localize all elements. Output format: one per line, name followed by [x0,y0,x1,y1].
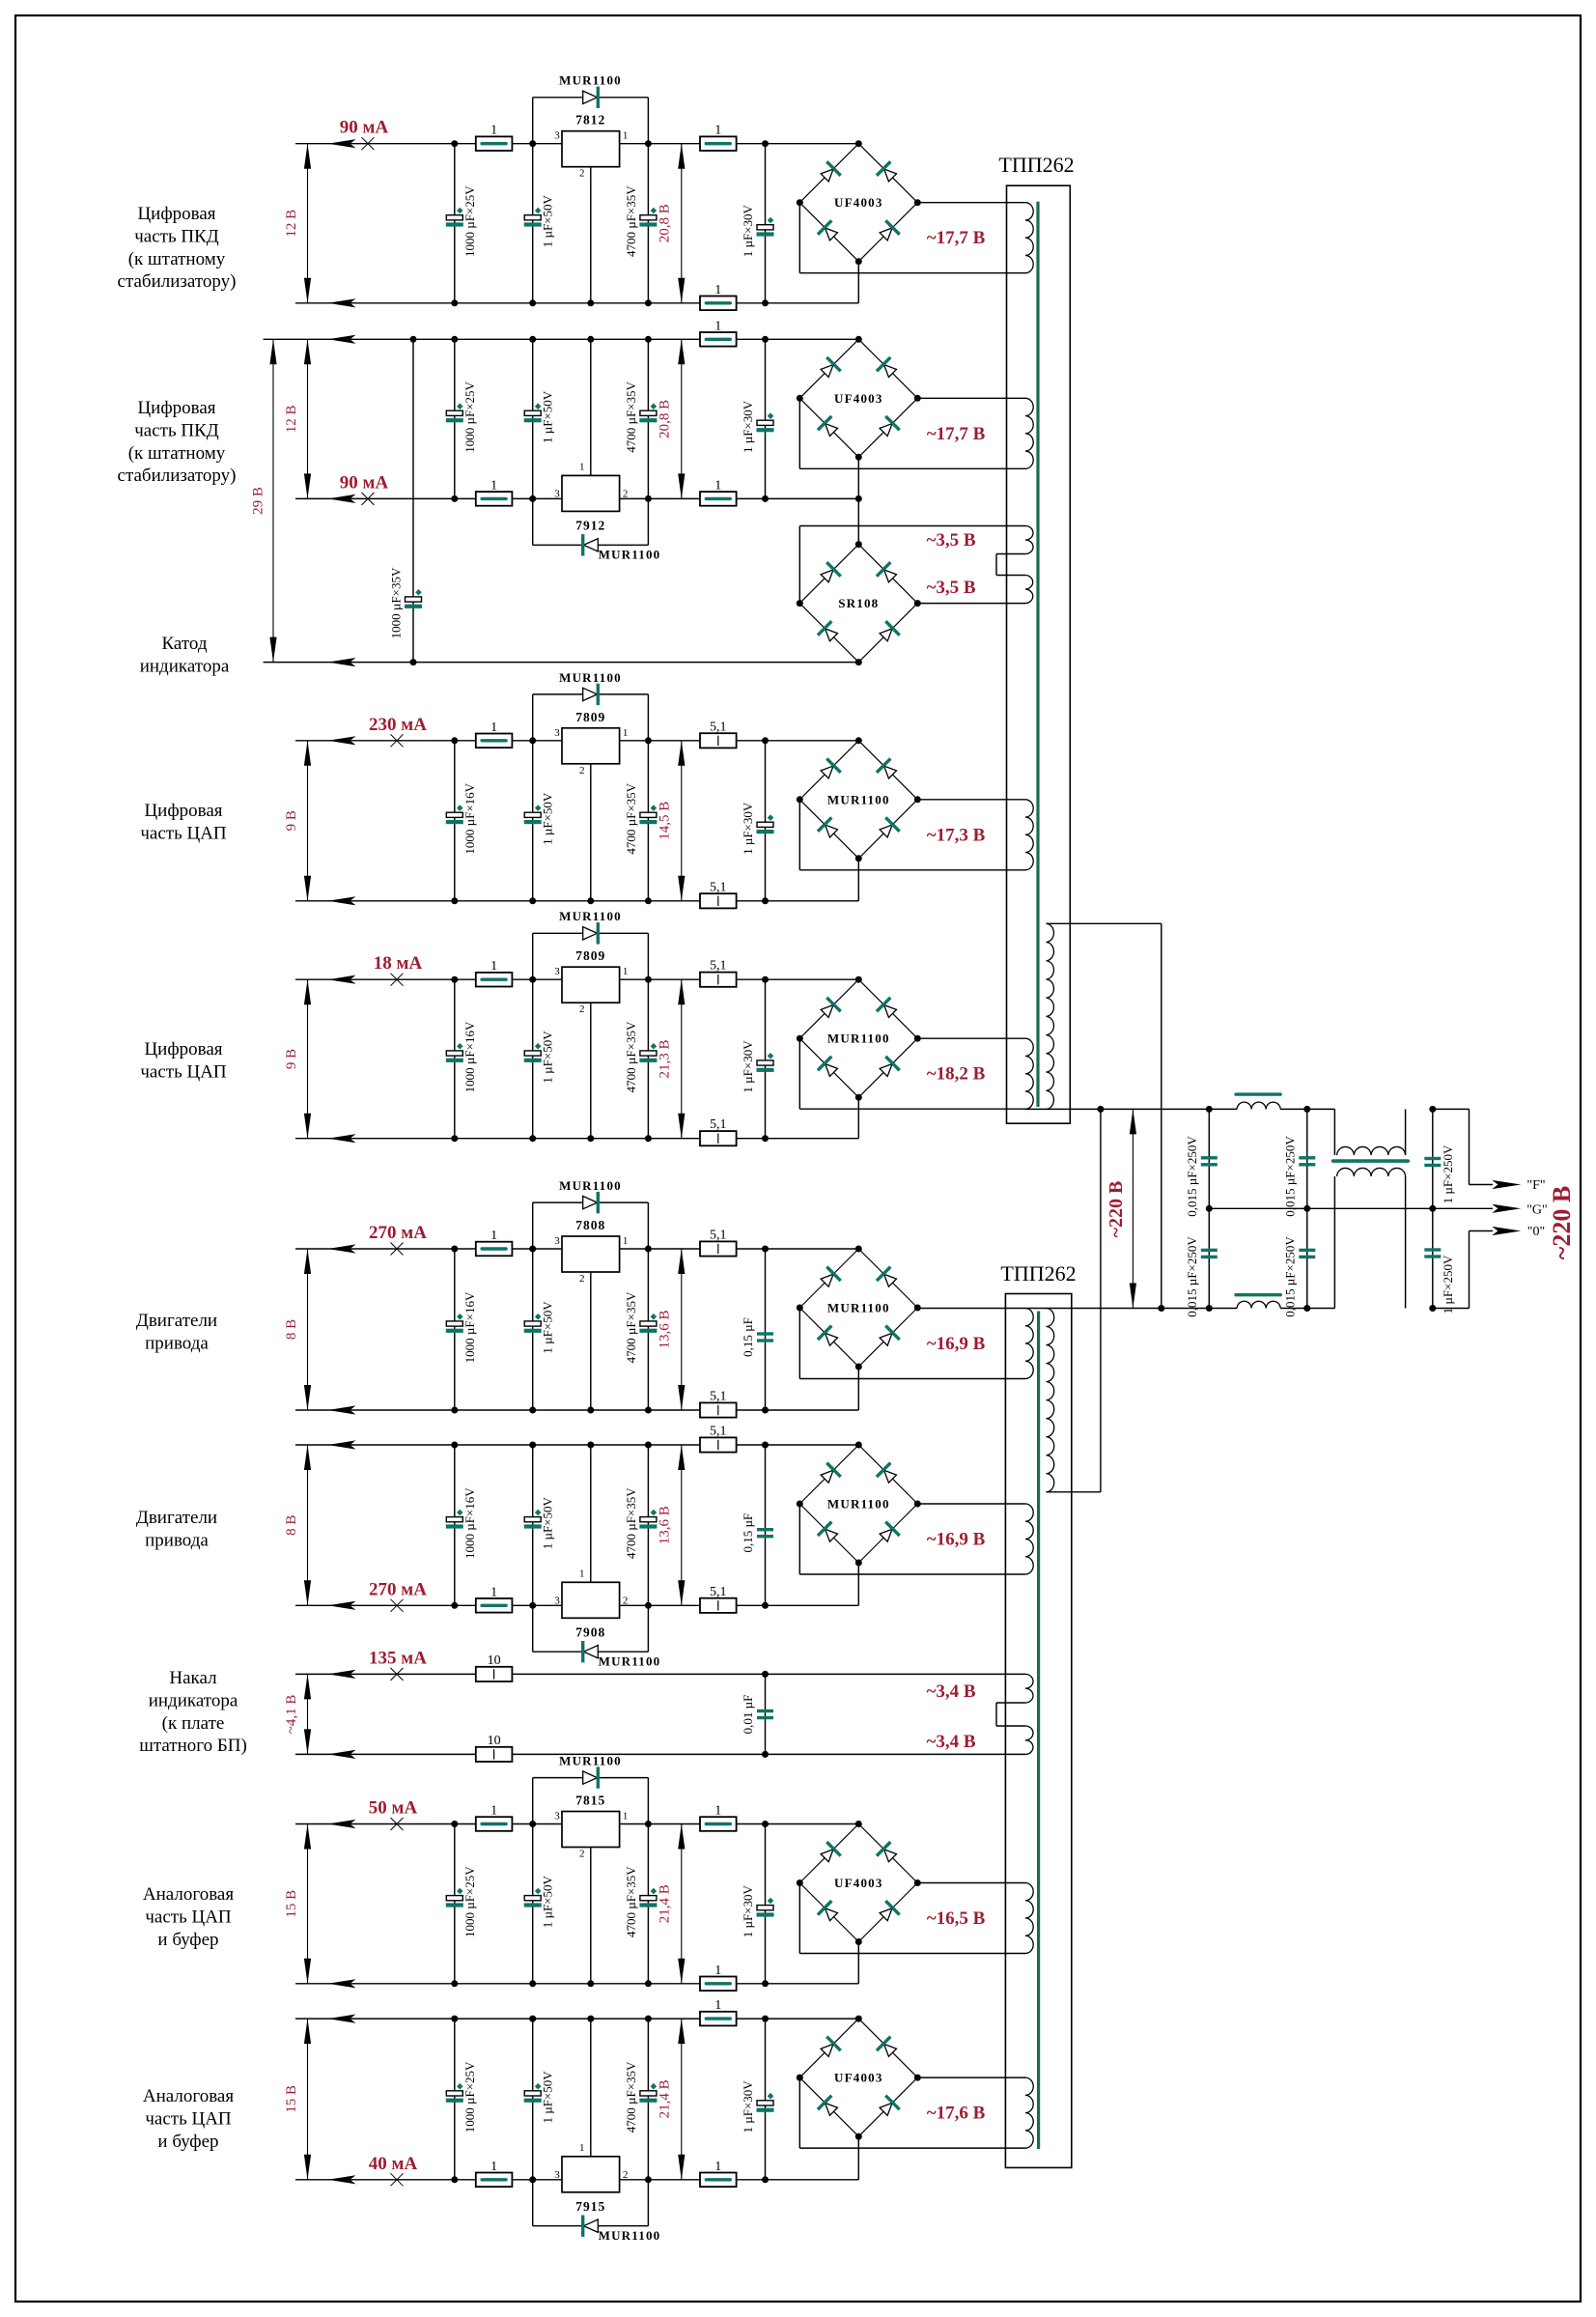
junction R5 C2 bottom [529,1407,536,1414]
resistor filament bottom 10 [476,1747,513,1762]
svg-text:"G": "G" [1526,1202,1548,1217]
diode R8 MUR1100 [583,2216,599,2237]
capacitor R1 C3 4700 µF×35V [640,215,657,220]
wire R1 C2 column [532,144,534,303]
wire R5 C4 column [765,1249,767,1410]
wire T1 primary top [1047,922,1162,924]
capacitor 1000 µF×35V [406,597,422,602]
junction R7 C1 bottom [451,1980,458,1987]
capacitor R3 C4 1 µF×30V [757,822,773,827]
wire T2 primary bottom [1047,1491,1101,1493]
wire R6 bridge return [857,1563,859,1605]
svg-text:1: 1 [490,124,497,138]
junction R4 C3 top [645,976,652,983]
wire R7 return rail [295,1983,858,1985]
junction R1 C2 bottom [529,299,536,306]
wire T1 primary connector [1161,923,1162,1308]
wire R4 bypass [532,933,534,979]
svg-text:1 µF×50V: 1 µF×50V [541,2071,555,2124]
svg-text:3: 3 [554,488,560,499]
junction R6 C4 top [762,1442,769,1449]
svg-text:2: 2 [623,488,629,499]
svg-text:230 мА: 230 мА [369,715,427,735]
svg-text:(к штатному: (к штатному [128,249,226,269]
junction chainC G [1429,1205,1436,1212]
capacitor R6 C1 1000 µF×16V [446,1517,462,1522]
svg-text:1 µF×30V: 1 µF×30V [741,802,755,855]
terminal arrow R3 bottom [328,896,356,905]
junction R7 C4 bottom [762,1980,769,1987]
svg-text:~4,1 В: ~4,1 В [284,1695,299,1735]
wire R4 bridge return [857,1097,859,1139]
junction C35 bottom [410,659,417,665]
svg-text:0,015 µF×250V: 0,015 µF×250V [1185,1136,1199,1217]
bridge R5 MUR1100 [799,1249,858,1308]
fuse R2 F1 1 [476,492,513,506]
svg-text:MUR1100: MUR1100 [559,1178,622,1193]
measure cross R3 [391,734,404,747]
wire R6 C2 column [532,1445,534,1605]
svg-text:UF4003: UF4003 [834,2071,883,2085]
capacitor chainA upper 0,015 µF×250V [1201,1156,1218,1159]
winding R4 secondary [1025,1038,1033,1109]
svg-text:3: 3 [554,727,560,739]
svg-text:1000 µF×16V: 1000 µF×16V [462,1487,477,1559]
svg-text:1000 µF×25V: 1000 µF×25V [462,2061,477,2133]
svg-text:MUR1100: MUR1100 [827,1031,890,1046]
wire R3 return rail [295,900,858,902]
svg-text:~17,6 В: ~17,6 В [927,2104,986,2124]
wire R7 bypass [532,1778,534,1824]
junction R6 C2 bottom [529,1602,536,1609]
terminal arrow R1 top [328,139,356,148]
dimension right R6 [681,1445,683,1605]
svg-text:10: 10 [488,1653,501,1668]
svg-text:7915: 7915 [575,2199,605,2214]
svg-text:1000 µF×25V: 1000 µF×25V [462,1866,477,1937]
diode R3 MUR1100 [583,684,599,705]
wire R8 bridge return [857,2136,859,2180]
svg-text:~17,7 В: ~17,7 В [927,228,986,248]
wire R8 output rail [295,2179,858,2181]
wire R1 C3 column [647,144,649,303]
junction R6 pin1 [587,1442,594,1449]
measure cross R1 [362,137,375,150]
svg-text:Аналоговая: Аналоговая [143,2086,234,2106]
terminal arrow cathode [328,658,356,666]
wire R2 to SR108 [857,498,859,544]
svg-text:2: 2 [623,1595,629,1606]
junction R8 C1 bottom [451,2176,458,2183]
terminal arrow R4 bottom [328,1134,356,1143]
bridge R8 UF4003 [799,2019,858,2077]
winding R5 secondary [1025,1309,1033,1379]
diode R7 MUR1100 [583,1766,599,1788]
junction chainA G [1206,1205,1213,1212]
junction R5 C1 bottom [451,1407,458,1414]
wire R4 C4 column [765,979,767,1138]
junction R3 C3 bottom [645,897,652,904]
measure cross R7 [391,1818,404,1830]
winding R1 secondary [1025,203,1033,273]
svg-text:2: 2 [579,1273,585,1285]
junction bottom line chainA [1206,1305,1213,1312]
transformer T2 TPP262 box [1005,1294,1071,2168]
junction R6 C1 bottom [451,1602,458,1609]
terminal arrow 0 [1492,1227,1521,1235]
svg-text:привода: привода [145,1530,209,1550]
svg-text:~3,4 В: ~3,4 В [926,1732,975,1752]
svg-text:2: 2 [579,168,585,180]
terminal arrow R2 top [328,335,356,344]
wire R5 bridge return [857,1367,859,1410]
svg-text:0,01 µF: 0,01 µF [741,1695,755,1735]
capacitor R2 C1 1000 µF×25V [446,410,462,415]
wire winding jog [996,553,1025,555]
junction R5 C3 top [645,1246,652,1253]
fuse R8 F1 1 [476,2173,513,2188]
junction R2 C4 top [762,336,769,343]
junction R2 C2 top [529,336,536,343]
svg-text:9 В: 9 В [284,810,299,831]
bridge R4 MUR1100 [799,979,858,1038]
junction R8 C2 bottom [529,2176,536,2183]
svg-text:Цифровая: Цифровая [137,398,215,418]
fuse R8 F2 top 1 [700,2012,737,2026]
wire R3 AC bottom [798,800,800,870]
measure cross filament [391,1668,404,1681]
dimension right R3 [681,741,683,901]
wire R6 output rail [295,1604,858,1606]
svg-text:1 µF×30V: 1 µF×30V [741,1884,755,1937]
regulator R2 7912 [562,475,620,511]
transformer T1 primary [1047,923,1054,1109]
svg-text:Цифровая: Цифровая [144,1039,222,1060]
fuse R7 F1 1 [476,1817,513,1831]
regulator R3 7809 [562,728,620,764]
junction R6 C3 top [645,1442,652,1449]
terminal arrow R4 top [328,975,356,984]
junction top line chainB [1303,1106,1310,1113]
capacitor R7 C3 4700 µF×35V [640,1896,657,1901]
svg-text:Двигатели: Двигатели [136,1311,217,1331]
wire R5 pin2 [590,1272,592,1410]
svg-text:270 мА: 270 мА [369,1223,427,1243]
terminal arrow R8 top [328,2015,356,2023]
bridge R1 UF4003 [799,144,858,203]
svg-text:7808: 7808 [575,1218,605,1232]
wire R7 AC bottom [798,1883,800,1954]
junction R4 C2 bottom [529,1135,536,1142]
svg-text:1 µF×50V: 1 µF×50V [541,1031,555,1084]
wire R6 common rail [295,1444,858,1446]
svg-text:3: 3 [554,130,560,142]
fuse R1 F2 bottom 1 [700,297,737,311]
svg-text:MUR1100: MUR1100 [827,1497,890,1512]
fuse R4 F2 bottom 5,1 [700,1131,737,1145]
bridge R3 MUR1100 [799,741,858,800]
dimension 29 В [272,339,274,662]
junction R4 C1 top [451,976,458,983]
winding 3,4 В upper [1025,1674,1033,1703]
svg-text:~16,9 В: ~16,9 В [927,1530,986,1550]
svg-text:Цифровая: Цифровая [144,801,222,821]
svg-text:1: 1 [623,727,629,739]
svg-text:и буфер: и буфер [157,1930,218,1950]
junction R2 C1 top [451,336,458,343]
junction R2 C3 bottom [645,495,652,502]
wire R2 C4 column [765,339,767,498]
svg-text:21,4 В: 21,4 В [658,1884,673,1923]
choke lower winding [1337,1168,1406,1176]
wire R3 output rail [295,740,858,742]
svg-text:1: 1 [714,283,721,297]
svg-text:1 µF×250V: 1 µF×250V [1441,1144,1455,1203]
inductor L2 [1237,1301,1280,1308]
wire choke right lower [1405,1176,1407,1309]
wire R2 output rail [295,497,858,499]
svg-text:7908: 7908 [575,1625,605,1639]
wire SR108 AC right [917,603,1025,605]
terminal arrow R7 bottom [328,1979,356,1988]
junction R5 C2 top [529,1246,536,1253]
wire choke right upper [1405,1109,1407,1155]
svg-text:и буфер: и буфер [157,2132,218,2152]
svg-text:MUR1100: MUR1100 [827,1301,890,1315]
wire R1 return rail [295,302,858,304]
wire R1 C4 column [765,144,767,303]
capacitor R7 C1 1000 µF×25V [446,1896,462,1901]
svg-text:часть ЦАП: часть ЦАП [140,823,227,843]
svg-text:Аналоговая: Аналоговая [143,1884,234,1905]
svg-text:0,015 µF×250V: 0,015 µF×250V [1185,1236,1199,1317]
svg-text:1: 1 [490,1804,497,1819]
wire R1 AC top [917,202,1025,204]
svg-text:7912: 7912 [575,518,605,532]
wire R6 C4 column [765,1445,767,1605]
junction R8 C2 top [529,2016,536,2022]
svg-text:1 µF×50V: 1 µF×50V [541,194,555,247]
wire R2 common rail [264,338,859,340]
svg-text:4700 µF×35V: 4700 µF×35V [624,1021,638,1092]
svg-text:ТПП262: ТПП262 [1000,1261,1076,1286]
junction R2 bridge return [855,495,862,502]
capacitor R3 C2 1 µF×50V [524,812,541,817]
transformer T2 core [1037,1312,1040,2150]
wire R2 AC top [917,397,1025,399]
capacitor R4 C2 1 µF×50V [524,1051,541,1056]
svg-text:3: 3 [554,2169,560,2181]
svg-text:часть ПКД: часть ПКД [134,420,219,440]
dimension R2 12 В [307,339,309,498]
svg-text:5,1: 5,1 [710,720,727,734]
svg-text:1 µF×30V: 1 µF×30V [741,2080,755,2133]
wire filament bottom rail [295,1753,1025,1755]
junction R1 C1 top [451,140,458,147]
wire R2 AC bottom [798,398,800,468]
dimension right R2 [681,339,683,498]
measure cross R8 [391,2173,404,2186]
bridge SR108 [799,545,858,604]
svg-text:"0": "0" [1527,1225,1545,1239]
junction T2 primary connector [1097,1106,1104,1113]
wire R7 output rail [295,1823,858,1825]
svg-text:1 µF×50V: 1 µF×50V [541,390,555,443]
wire R7 AC top [917,1882,1025,1884]
svg-text:2: 2 [623,2169,629,2181]
diode R6 MUR1100 [583,1641,599,1662]
bridge R6 MUR1100 [799,1445,858,1504]
svg-text:~220 В: ~220 В [1548,1186,1576,1259]
junction R4 C4 bottom [762,1135,769,1142]
junction chainB G [1303,1205,1310,1212]
capacitor R4 C3 4700 µF×35V [640,1051,657,1056]
junction bottom line chainB [1303,1305,1310,1312]
capacitor R1 C1 1000 µF×25V [446,215,462,220]
winding R6 secondary [1025,1504,1033,1574]
fuse R7 F2 bottom 1 [700,1977,737,1992]
svg-text:0,015 µF×250V: 0,015 µF×250V [1282,1136,1297,1217]
wire R2 bypass [532,498,534,545]
junction R8 pin1 [587,2016,594,2022]
junction T1 primary connector [1158,1305,1164,1312]
svg-text:1 µF×50V: 1 µF×50V [541,1496,555,1549]
wire R2 C1 column [454,339,456,498]
svg-text:1 µF×250V: 1 µF×250V [1441,1255,1455,1314]
svg-text:1000 µF×25V: 1000 µF×25V [462,185,477,257]
wire R4 C2 column [532,979,534,1138]
svg-text:"F": "F" [1526,1178,1545,1193]
dimension R3 9 В [307,741,309,901]
wire filter bottom line [1025,1308,1237,1310]
junction R8 C3 bottom [645,2176,652,2183]
terminal arrow R7 top [328,1820,356,1828]
wire R8 AC bottom [798,2077,800,2148]
fuse R1 F2 top 1 [700,136,737,151]
terminal arrow R8 bottom [328,2175,356,2184]
svg-text:1: 1 [714,1964,721,1978]
bridge R7 UF4003 [799,1824,858,1883]
junction R4 C2 top [529,976,536,983]
fuse R1 F1 1 [476,136,513,151]
capacitor R4 C4 1 µF×30V [757,1060,773,1065]
wire R3 bridge return [857,859,859,901]
svg-text:SR108: SR108 [838,596,879,610]
regulator R6 7908 [562,1582,620,1618]
junction R5 C4 top [762,1246,769,1253]
dimension R6 8 В [307,1445,309,1605]
svg-text:часть ЦАП: часть ЦАП [140,1061,227,1082]
svg-text:8 В: 8 В [284,1515,299,1536]
svg-text:~3,5 В: ~3,5 В [926,530,975,551]
terminal arrow R1 bottom [328,298,356,307]
svg-text:3: 3 [554,966,560,977]
wire R4 C1 column [454,979,456,1138]
svg-text:1: 1 [714,1998,721,2013]
svg-text:10: 10 [488,1734,501,1748]
capacitor R2 C3 4700 µF×35V [640,410,657,415]
junction R4 pin2 [587,1135,594,1142]
terminal arrow R6 top [328,1440,356,1449]
svg-text:1 µF×30V: 1 µF×30V [741,204,755,257]
svg-text:13,6 В: 13,6 В [658,1506,673,1544]
dimension right R5 [681,1249,683,1410]
svg-text:0,15 µF: 0,15 µF [741,1317,755,1357]
wire filament jog [996,1702,1025,1704]
junction R4 C4 top [762,976,769,983]
svg-text:1: 1 [579,461,585,472]
svg-text:1: 1 [579,1568,585,1579]
wire R4 AC top [917,1037,1025,1039]
svg-text:20,8 В: 20,8 В [658,204,673,242]
junction chainC bottom [1429,1305,1436,1312]
fuse R5 F2 bottom 5,1 [700,1402,737,1417]
capacitor R8 C3 4700 µF×35V [640,2091,657,2096]
svg-text:1000 µF×35V: 1000 µF×35V [389,567,404,638]
capacitor R3 C1 1000 µF×16V [446,812,462,817]
svg-text:1: 1 [623,966,629,977]
svg-text:2: 2 [579,1849,585,1860]
svg-text:135 мА: 135 мА [369,1648,427,1668]
svg-text:1 µF×30V: 1 µF×30V [741,1040,755,1093]
wire T2 primary connector [1100,1109,1102,1491]
measure cross R4 [391,974,404,986]
wire chainA [1208,1109,1210,1308]
svg-text:часть ПКД: часть ПКД [134,226,219,246]
svg-text:5,1: 5,1 [710,1229,727,1243]
svg-text:50 мА: 50 мА [369,1798,418,1819]
terminal arrow G [1492,1204,1521,1213]
junction top line chainA [1206,1106,1213,1113]
wire R2 C3 column [647,339,649,498]
wire R8 C4 column [765,2019,767,2180]
junction R2 pin1 [587,336,594,343]
svg-text:1: 1 [623,130,629,142]
svg-text:1: 1 [579,2142,585,2154]
fuse R6 F2 top 5,1 [700,1437,737,1452]
terminal arrow R5 top [328,1244,356,1253]
junction R5 C1 top [451,1246,458,1253]
wire terminal F [1433,1108,1470,1110]
svg-text:7812: 7812 [575,113,605,127]
wire R8 bypass [532,2180,534,2226]
wire R3 C2 column [532,741,534,901]
capacitor chainB lower 0,015 µF×250V [1299,1249,1315,1252]
junction R3 C1 top [451,737,458,744]
junction R4 C1 bottom [451,1135,458,1142]
junction R7 C3 bottom [645,1980,652,1987]
svg-text:~18,2 В: ~18,2 В [927,1064,986,1085]
terminal arrow F [1492,1180,1521,1189]
svg-text:(к штатному: (к штатному [128,443,226,464]
svg-text:MUR1100: MUR1100 [559,1754,622,1768]
svg-text:8 В: 8 В [284,1319,299,1340]
svg-text:~3,5 В: ~3,5 В [926,578,975,598]
winding R2 secondary [1025,398,1033,468]
wire chainB [1306,1109,1308,1308]
wire R8 common rail [295,2018,858,2020]
svg-text:привода: привода [145,1333,209,1353]
svg-text:ТПП262: ТПП262 [998,153,1074,177]
junction C35 top [410,336,417,343]
bridge R2 UF4003 [799,339,858,398]
fuse R3 F2 bottom 5,1 [700,893,737,908]
junction R7 C3 top [645,1821,652,1827]
fuse R7 F2 top 1 [700,1817,737,1831]
capacitor R2 C2 1 µF×50V [524,410,541,415]
capacitor 0,01 µF [757,1709,773,1712]
capacitor chainC upper 1 µF×250V [1424,1157,1441,1160]
